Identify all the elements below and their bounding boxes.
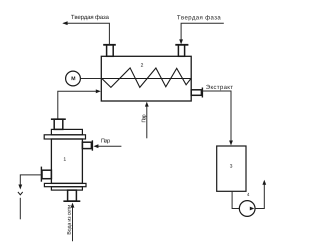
- condensate arrowhead down: [18, 185, 22, 190]
- solid phase outlet line: [64, 23, 110, 44]
- solid phase inlet arrowhead: [179, 39, 183, 44]
- extract outlet nozzle: [191, 90, 201, 96]
- drain chevron: [18, 192, 23, 195]
- steam inlet nozzle flange: [91, 140, 93, 150]
- condensate line: [20, 175, 41, 185]
- heat exchanger top nozzle pipe: [54, 119, 63, 129]
- extract line to tank: [202, 91, 231, 142]
- label 3: [230, 164, 232, 168]
- heat exchanger bottom nozzle pipe: [68, 190, 77, 201]
- heat exchanger bottom flange band: [44, 183, 86, 186]
- hot water arrowhead: [96, 89, 101, 93]
- pump 4 circle: [239, 201, 255, 217]
- agitator shaft axis line: [101, 78, 191, 80]
- tank 3 body: [217, 146, 246, 191]
- pump flow arrowhead: [250, 207, 255, 211]
- drain line: [19, 198, 21, 220]
- top-right nozzle flange: [175, 44, 188, 46]
- solid phase outlet arrowhead: [62, 21, 67, 25]
- label 2: [141, 63, 143, 66]
- label Вода из сети (vertical): [67, 205, 72, 234]
- discharge arrowhead up: [262, 180, 266, 185]
- motor M circle: [66, 71, 81, 86]
- label Экстракт: [206, 85, 233, 90]
- steam arrowhead up: [145, 102, 149, 107]
- heat exchanger bottom nozzle flange: [63, 200, 80, 202]
- heat exchanger top head: [51, 129, 82, 134]
- steam inlet nozzle: [82, 142, 91, 148]
- top-left nozzle pipe: [107, 45, 114, 57]
- label Пар (vertical): [142, 115, 147, 123]
- pump discharge line: [255, 184, 264, 209]
- top-left nozzle flange: [103, 44, 116, 46]
- label Твердая фаза (right): [177, 15, 221, 21]
- steam inlet stub line: [98, 145, 121, 147]
- motor shaft line: [80, 78, 101, 80]
- heat exchanger top nozzle flange: [51, 118, 66, 120]
- hot water line from exchanger to extractor: [58, 91, 96, 119]
- solid phase inlet line: [181, 23, 224, 40]
- water arrowhead up: [71, 203, 75, 208]
- motor letter M: [72, 77, 76, 81]
- pump suction line: [232, 191, 239, 208]
- screw conveyor zigzag: [102, 68, 191, 88]
- label 4: [247, 193, 249, 196]
- top-right nozzle pipe: [178, 45, 184, 57]
- condensate nozzle flange: [40, 167, 42, 182]
- heat exchanger bottom head: [51, 187, 82, 190]
- water from mains line: [72, 207, 74, 241]
- extract nozzle flange: [201, 88, 203, 98]
- extractor vessel 2 body: [101, 56, 191, 101]
- condensate nozzle: [42, 170, 51, 179]
- extract arrowhead down: [229, 141, 233, 146]
- steam inlet arrowhead: [93, 144, 98, 148]
- steam line into extractor bottom: [146, 106, 148, 138]
- label Пар (horizontal): [101, 139, 110, 144]
- heat exchanger shell body 1: [51, 139, 82, 183]
- label Твердая фаза (left): [71, 15, 109, 21]
- label 1: [64, 157, 66, 160]
- heat exchanger top flange band: [44, 135, 85, 139]
